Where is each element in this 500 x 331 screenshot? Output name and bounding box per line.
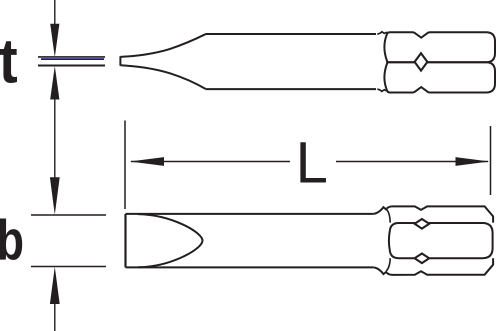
arrow b bottom (up)	[50, 267, 60, 304]
L arrow right	[456, 157, 490, 166]
b extension line bottom	[31, 266, 106, 268]
hex diamond bottom figure upper	[415, 219, 430, 229]
b extension line top	[31, 214, 106, 216]
dimension line vertical middle segment	[54, 99, 56, 178]
tip face line bottom figure	[124, 214, 126, 268]
svg-text:t: t	[0, 25, 18, 96]
L arrow left	[130, 157, 164, 166]
L dimension right extension line	[490, 126, 492, 195]
arrow b top (down)	[50, 177, 60, 214]
bottom outline with collar, notch and right chamfer	[374, 258, 493, 275]
hex diamond bottom figure lower	[415, 254, 430, 264]
blade bottom profile	[120, 65, 205, 89]
hex middle band	[389, 223, 493, 258]
body top line	[206, 33, 377, 35]
top outline with collar, notch and right chamfer	[374, 206, 493, 222]
collar top	[377, 32, 387, 34]
blade top edge	[126, 213, 374, 215]
svg-text:b: b	[0, 208, 24, 272]
hex bottom half	[384, 62, 495, 92]
collar bottom	[377, 89, 387, 91]
tip face line	[119, 56, 121, 65]
band3 left closure	[386, 258, 390, 271]
band1 left closure	[386, 209, 390, 223]
blade bottom edge	[126, 266, 374, 268]
arrow t top (down)	[50, 24, 59, 58]
svg-text:L: L	[296, 131, 328, 196]
hex diamond top figure	[415, 53, 428, 70]
body bottom line	[206, 88, 377, 90]
arrow t bottom (up)	[50, 66, 59, 100]
dimension line vertical bottom segment	[54, 304, 56, 331]
hex top half	[384, 32, 495, 62]
L dimension line right segment	[336, 161, 488, 163]
t extension line top (blade edge)	[38, 56, 105, 58]
t extension line bottom (blade edge)	[38, 65, 105, 67]
dimension line vertical top segment	[54, 0, 56, 24]
L dimension line left segment	[131, 161, 290, 163]
blade top profile	[120, 34, 205, 57]
grind boundary curve	[138, 214, 203, 267]
L dimension left extension line	[124, 121, 126, 210]
t blue highlight line	[41, 58, 104, 60]
